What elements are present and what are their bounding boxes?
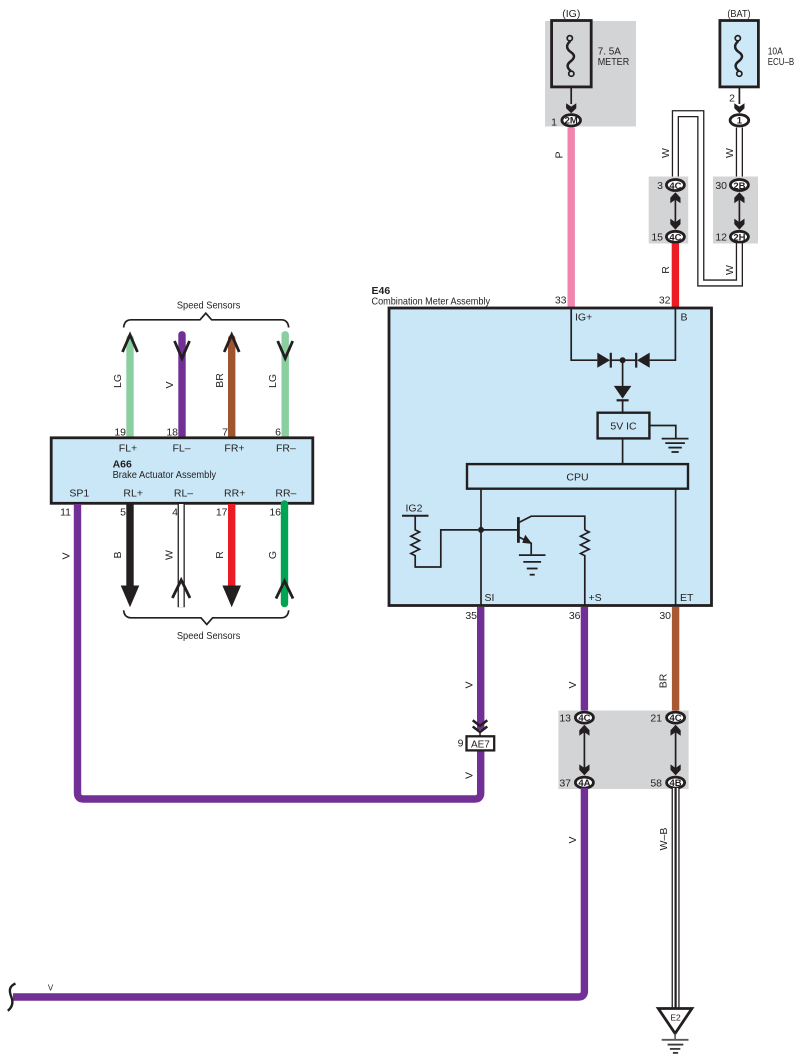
wire CPU to ET pin: [675, 489, 677, 605]
svg-text:FR+: FR+: [224, 443, 244, 455]
wire V from 4A to left edge: [13, 788, 584, 997]
svg-text:BR: BR: [658, 673, 670, 688]
diode D2: [623, 353, 650, 368]
connector oval 1: [730, 115, 749, 127]
wire from fuse IG to connector 2M: [570, 87, 572, 104]
svg-text:W: W: [660, 148, 672, 158]
svg-text:13: 13: [559, 712, 571, 724]
arrowhead into oval 1: [734, 103, 744, 113]
svg-text:V: V: [567, 836, 579, 843]
wire 5V IC to CPU: [622, 438, 624, 464]
regulator 5V IC: [598, 413, 650, 439]
wire BR (FR+ sensor): [224, 335, 239, 437]
svg-text:IG2: IG2: [406, 503, 423, 515]
svg-text:IG+: IG+: [575, 312, 592, 324]
svg-text:1: 1: [737, 116, 743, 127]
svg-text:W: W: [724, 148, 736, 158]
svg-text:W: W: [724, 265, 736, 275]
svg-text:2H: 2H: [733, 233, 745, 244]
svg-text:15: 15: [651, 232, 663, 244]
svg-text:R: R: [660, 266, 672, 274]
double arrow 4C-4B: [671, 725, 681, 776]
svg-text:B: B: [112, 551, 124, 558]
svg-text:11: 11: [60, 507, 71, 519]
ground E2: [658, 1009, 692, 1053]
svg-text:FR–: FR–: [276, 443, 296, 455]
ground (emitter): [519, 555, 546, 575]
fuse F1 7.5A METER body: [552, 21, 592, 87]
connector oval 4C (21): [667, 712, 685, 724]
double arrow 4C-4C: [670, 192, 680, 229]
svg-text:V: V: [164, 381, 176, 388]
wire diode D3 to 5V IC: [622, 400, 624, 412]
A66 Brake Actuator Assembly box: [51, 438, 313, 504]
connector oval 4C (13): [575, 712, 593, 724]
wire V from SP1 to AE7 junction: [78, 504, 481, 799]
arrowhead into 2M: [566, 103, 576, 113]
E46 Combination Meter Assembly box: [389, 308, 712, 606]
svg-text:RR+: RR+: [224, 488, 245, 500]
double arrow 2B-2H: [734, 192, 744, 229]
node between diodes: [620, 357, 626, 363]
resistor R1 (IG2): [411, 516, 478, 567]
svg-text:5V IC: 5V IC: [610, 421, 637, 433]
svg-text:CPU: CPU: [566, 472, 588, 484]
wire V (FL- sensor): [175, 335, 190, 437]
wire W-B from 4B to E2: [672, 788, 680, 1008]
svg-text:5: 5: [120, 507, 126, 519]
svg-text:BR: BR: [214, 373, 226, 388]
brace top: [124, 313, 289, 327]
svg-text:4C: 4C: [670, 713, 682, 724]
svg-text:Speed Sensors: Speed Sensors: [177, 300, 241, 312]
svg-text:RR–: RR–: [275, 488, 296, 500]
wire R (red) from 4C to E46 pin 32: [672, 243, 679, 307]
svg-text:Brake Actuator Assembly: Brake Actuator Assembly: [113, 469, 217, 481]
svg-text:36: 36: [569, 610, 581, 622]
svg-text:METER: METER: [598, 56, 630, 68]
wire W from 2H routed to 4C: [675, 114, 739, 283]
connector oval 4A (37): [575, 777, 593, 789]
wire W from oval 1 to 2B: [736, 128, 743, 179]
svg-text:30: 30: [715, 180, 727, 192]
wire BR from ET pin to 4C: [672, 607, 679, 712]
wire CPU to SI pin: [480, 489, 482, 605]
wire LG (FR- sensor): [278, 335, 293, 437]
svg-text:SI: SI: [485, 592, 495, 604]
svg-text:4A: 4A: [578, 778, 590, 789]
connector AE7: [467, 736, 495, 750]
svg-text:V: V: [567, 681, 579, 688]
double arrow 4C-4A: [579, 725, 589, 776]
connector oval 4C top: [666, 180, 684, 192]
svg-text:2B: 2B: [733, 181, 745, 192]
fuse F2 10A ECU-B body: [720, 21, 759, 87]
break chevrons above AE7: [473, 720, 488, 736]
wire LG (FL+ sensor): [123, 335, 138, 437]
svg-text:9: 9: [458, 738, 464, 750]
connector oval 4B (58): [667, 777, 685, 789]
svg-text:17: 17: [216, 507, 228, 519]
wire node to transistor base: [481, 529, 517, 531]
svg-text:(IG): (IG): [562, 8, 580, 20]
svg-text:RL–: RL–: [174, 488, 193, 500]
svg-text:32: 32: [659, 295, 671, 307]
svg-text:12: 12: [715, 232, 727, 244]
svg-text:E2: E2: [670, 1013, 681, 1023]
wire 5V IC to ground: [649, 426, 675, 439]
IG2 terminal bar: [402, 515, 429, 517]
svg-text:ECU–B: ECU–B: [768, 56, 795, 68]
svg-text:3: 3: [657, 180, 663, 192]
svg-text:2M: 2M: [565, 116, 578, 127]
svg-text:4C: 4C: [578, 713, 590, 724]
wire B (RL+): [121, 504, 140, 607]
svg-text:4B: 4B: [670, 778, 682, 789]
brace bottom: [124, 610, 289, 624]
wire node to diode D3: [622, 360, 624, 386]
svg-text:LG: LG: [112, 374, 124, 388]
ground (5V IC): [662, 439, 689, 452]
svg-text:ET: ET: [680, 592, 694, 604]
wire V from +S pin to 4C: [581, 607, 588, 712]
node on SI wire: [478, 527, 484, 533]
svg-text:FL–: FL–: [172, 443, 190, 455]
svg-text:V: V: [61, 552, 73, 559]
svg-text:G: G: [267, 551, 279, 559]
svg-text:(BAT): (BAT): [727, 8, 750, 20]
connector oval 2B: [730, 180, 748, 192]
svg-text:LG: LG: [267, 374, 279, 388]
svg-text:P: P: [554, 151, 566, 158]
svg-text:2: 2: [729, 93, 735, 105]
svg-text:V: V: [48, 984, 54, 993]
svg-text:1: 1: [551, 116, 557, 128]
transistor Q1: [518, 516, 584, 554]
svg-text:W: W: [164, 550, 176, 560]
break squiggle at left edge: [8, 984, 16, 1011]
wire R (RR+): [222, 504, 241, 607]
svg-text:4: 4: [172, 507, 178, 519]
connector 4C grey panel: [649, 177, 689, 244]
junction block J/B grey panel (IG fuse area): [545, 21, 636, 127]
svg-text:21: 21: [650, 712, 662, 724]
CPU box: [467, 464, 688, 489]
svg-text:W–B: W–B: [658, 828, 670, 851]
wire V from SI pin: [477, 607, 484, 730]
wire G (RR-): [276, 504, 293, 604]
internal wire from pin 32 to diodes: [650, 309, 676, 360]
svg-text:FL+: FL+: [119, 443, 137, 455]
connector oval 4C bottom: [666, 231, 684, 243]
connector oval 2M: [562, 115, 581, 127]
svg-text:V: V: [464, 681, 476, 688]
internal wire from pin 33 to diodes: [571, 309, 597, 360]
svg-text:SP1: SP1: [69, 488, 89, 500]
diode D3: [614, 386, 632, 400]
resistor R2 (+S pullup): [581, 530, 590, 605]
svg-text:V: V: [464, 772, 476, 779]
diode D1: [597, 353, 622, 368]
svg-text:37: 37: [559, 777, 571, 789]
svg-text:Speed Sensors: Speed Sensors: [177, 630, 241, 642]
svg-text:35: 35: [465, 610, 477, 622]
connector oval 2H: [730, 231, 748, 243]
svg-text:58: 58: [650, 777, 662, 789]
svg-text:RL+: RL+: [123, 488, 143, 500]
svg-text:Combination Meter Assembly: Combination Meter Assembly: [372, 296, 491, 308]
svg-text:B: B: [681, 312, 688, 324]
svg-text:33: 33: [555, 295, 567, 307]
svg-text:4C: 4C: [669, 233, 681, 244]
svg-text:16: 16: [269, 507, 281, 519]
svg-text:AE7: AE7: [471, 739, 490, 750]
svg-text:30: 30: [659, 610, 671, 622]
connector 2B/2H grey panel: [713, 177, 758, 244]
svg-text:R: R: [214, 551, 226, 559]
connector 4C/4A/4B grey panel: [558, 711, 688, 790]
svg-text:+S: +S: [589, 592, 602, 604]
wire W (RL-): [172, 504, 190, 607]
wire P (pink) from 2M to E46 pin 33: [568, 128, 575, 308]
svg-text:4C: 4C: [669, 181, 681, 192]
